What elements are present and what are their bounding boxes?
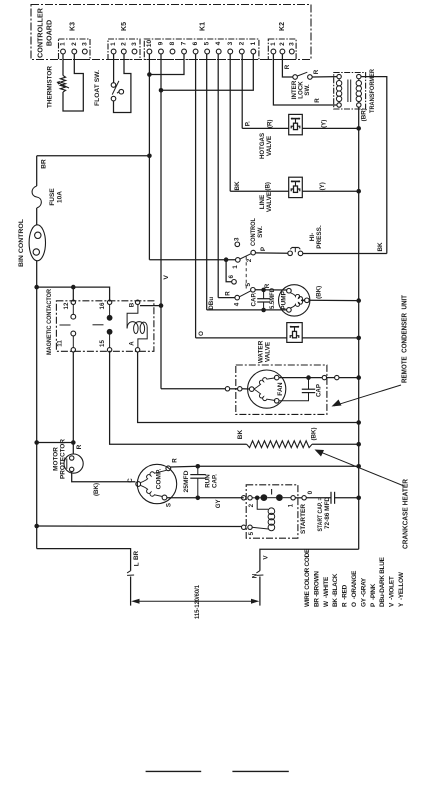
svg-text:1: 1 — [110, 42, 117, 46]
svg-text:MAGNETIC CONTACTOR: MAGNETIC CONTACTOR — [46, 289, 53, 355]
connector K1 pin 2 — [238, 41, 245, 54]
svg-text:16: 16 — [99, 302, 106, 309]
transformer secondary winding — [356, 79, 361, 103]
wire K1 pin7 jog to pin10 line — [149, 54, 184, 75]
connector K3 pin 3 — [81, 42, 88, 54]
svg-text:10: 10 — [146, 40, 153, 48]
fan motor FAN — [248, 370, 286, 408]
svg-text:5: 5 — [204, 41, 211, 45]
svg-text:FUSE: FUSE — [49, 188, 56, 206]
junction pin10/BR fuse line — [147, 154, 152, 159]
wire pin5 to pump bottom (DBu) — [207, 309, 287, 311]
label FUSE 10A — [49, 188, 64, 206]
svg-text:3: 3 — [288, 42, 295, 46]
label BK linevalve — [234, 181, 241, 191]
svg-text:5: 5 — [245, 283, 252, 287]
svg-text:0: 0 — [307, 490, 314, 494]
svg-text:4: 4 — [233, 302, 240, 306]
wire rail bin to starter 5 — [37, 525, 242, 528]
dimension line 115-120/60/1 — [131, 599, 259, 604]
water valve — [287, 323, 302, 343]
svg-text:STARTER: STARTER — [300, 504, 307, 534]
contactor coil terminal A — [128, 341, 140, 352]
label (BK) pump — [316, 286, 323, 299]
run capacitor 25MFD — [190, 466, 206, 498]
svg-text:(R): (R) — [267, 120, 274, 129]
label CONTROL SW. — [250, 218, 264, 246]
wire K3 pin1 to thermistor — [62, 54, 64, 76]
wire N lead — [260, 549, 359, 570]
junction hotgas on bus — [356, 126, 361, 131]
svg-text:HOTGAS: HOTGAS — [259, 132, 266, 159]
label BIN CONTROL — [18, 219, 25, 267]
wire L lead lower — [130, 577, 132, 606]
svg-text:R: R — [264, 283, 271, 288]
svg-text:K3: K3 — [69, 22, 76, 31]
svg-text:R: R — [284, 64, 291, 69]
label 115-120/60/1 — [194, 585, 201, 619]
label THERMISTOR — [47, 66, 54, 108]
wire water valve to bus — [302, 337, 359, 339]
label R pump — [264, 283, 271, 288]
svg-text:K2: K2 — [279, 22, 286, 31]
connector K1 pin 7 — [181, 41, 188, 54]
wire K1 pin1 jog to pin9 line — [161, 54, 253, 90]
label R interlock — [313, 69, 320, 74]
junction bin/contactor branch — [34, 285, 39, 290]
label 1 starter — [288, 503, 295, 507]
svg-text:SW.: SW. — [304, 84, 311, 96]
svg-text:(BR): (BR) — [360, 108, 367, 121]
crankcase heater resistor — [247, 441, 313, 448]
control switch contact 5 — [245, 283, 255, 293]
wire L lead — [37, 549, 131, 571]
arrow to crankcase heater — [315, 450, 405, 487]
wire hi-press to BK line — [303, 253, 387, 255]
connector K1 pin 3 — [227, 41, 234, 54]
wire terminal 15 to crankcase heater — [110, 352, 247, 444]
svg-text:PUMP: PUMP — [281, 290, 288, 309]
label N — [251, 573, 258, 578]
fan capacitor — [279, 378, 315, 401]
label START CAP. — [317, 497, 324, 531]
svg-text:5.5MFD: 5.5MFD — [269, 288, 276, 309]
svg-text:CAP.: CAP. — [212, 474, 219, 488]
svg-text:K5: K5 — [121, 22, 128, 31]
wire K2 pin2 to interlock — [282, 54, 292, 77]
svg-text:DBu-DARK BLUE: DBu-DARK BLUE — [379, 556, 386, 607]
wire color code legend — [304, 548, 405, 607]
junction pump cap bottom — [261, 308, 266, 313]
svg-text:START CAP. =: START CAP. = — [317, 497, 324, 531]
label (BR) — [360, 108, 367, 121]
label BR — [41, 159, 48, 169]
starter terminal 1 outer circle — [295, 496, 306, 500]
svg-text:VALVE: VALVE — [265, 341, 272, 362]
wire heater to bus — [312, 443, 359, 445]
wire pin6 to water valve (O) — [196, 337, 287, 339]
junction start cap on bus — [356, 496, 361, 501]
pump motor PUMP — [279, 285, 310, 316]
svg-text:BIN CONTROL: BIN CONTROL — [18, 219, 25, 267]
wire K1 pin6 down (O net) — [195, 54, 197, 338]
wire K5 pin1 to float switch — [113, 54, 115, 83]
label R comp — [172, 458, 179, 463]
starter box — [246, 485, 298, 538]
svg-text:3: 3 — [81, 42, 88, 46]
svg-text:BK: BK — [237, 430, 244, 440]
transformer core — [348, 80, 351, 103]
svg-text:(B): (B) — [264, 182, 271, 191]
label LINE VALVE — [259, 191, 273, 212]
wire thermistor loop to K3 pin2 — [63, 54, 83, 111]
wire pump to bus (BK) — [309, 299, 359, 301]
junction bin/protector branch — [34, 440, 39, 445]
label PUMP — [281, 290, 288, 309]
junction heater on bus — [356, 442, 361, 447]
svg-text:BR: BR — [41, 159, 48, 169]
connector K3 box — [59, 39, 91, 60]
wire pin3 to line valve (BK) — [230, 190, 289, 192]
svg-text:S: S — [166, 503, 173, 507]
transformer terminals — [337, 74, 361, 107]
wire N lead lower — [259, 577, 261, 606]
svg-text:VALVE: VALVE — [266, 191, 273, 212]
label R k2pin2 — [284, 64, 291, 69]
control switch contact 3 — [234, 237, 241, 247]
svg-text:VALVE: VALVE — [266, 135, 273, 156]
svg-text:1: 1 — [60, 42, 67, 46]
wire connector to fan terminal — [242, 388, 249, 390]
label K5 — [121, 22, 128, 31]
svg-text:72-86 MFD: 72-86 MFD — [324, 496, 331, 529]
wire K1 pin9 down (V net) — [160, 54, 162, 389]
arrow to remote condenser unit — [332, 385, 402, 407]
svg-text:6: 6 — [228, 274, 235, 278]
svg-text:COMP.: COMP. — [156, 468, 163, 489]
svg-text:9: 9 — [157, 41, 164, 45]
svg-text:DBu: DBu — [208, 297, 215, 310]
svg-text:THERMISTOR: THERMISTOR — [47, 66, 54, 108]
connector K1 pin 4 — [215, 41, 222, 54]
fan connector circles right — [322, 375, 339, 379]
label REMOTE CONDENSER UNIT — [402, 294, 409, 383]
wire contact5 to pump — [255, 289, 286, 291]
contactor coil — [127, 305, 147, 348]
contactor terminal 15 — [99, 340, 112, 352]
control switch contact 4 — [233, 295, 240, 306]
connector K1 pin 9 — [157, 41, 164, 54]
svg-text:CONTROLLER: CONTROLLER — [36, 7, 45, 58]
svg-text:RUN: RUN — [205, 474, 212, 488]
label (Y) hotgas — [320, 120, 327, 128]
wire K2 pin1 to transformer — [273, 54, 336, 105]
starter contact — [252, 489, 291, 501]
label P. — [244, 121, 251, 126]
svg-text:WATER: WATER — [258, 340, 265, 363]
junction bin/starter rail — [34, 524, 39, 529]
svg-text:HI-: HI- — [309, 233, 316, 242]
svg-text:3: 3 — [234, 237, 241, 241]
wire fuse to bin control — [36, 208, 38, 225]
label INTER LOCK SW. — [291, 80, 311, 99]
svg-text:CAP: CAP — [315, 384, 322, 397]
junction water valve on bus — [356, 336, 361, 341]
svg-text:1: 1 — [288, 503, 295, 507]
label TRANSFORMER — [369, 69, 376, 113]
contactor terminal 16 — [99, 300, 112, 309]
svg-text:MOTOR: MOTOR — [53, 447, 60, 471]
control switch coupling dashed — [245, 257, 247, 289]
connector K1 pin 1 — [250, 41, 257, 54]
label BK — [237, 430, 244, 440]
connector K1 pin 10 — [146, 40, 153, 54]
junction pin9/pin1 (V net) — [159, 88, 164, 93]
wire K1 pin2 down (P net) — [241, 54, 243, 128]
svg-text:11: 11 — [57, 340, 64, 347]
label 5.5MFD — [269, 288, 276, 309]
junction starter coil tap — [255, 496, 260, 501]
wire BR from fuse line to pin10 — [37, 155, 150, 157]
svg-text:C: C — [127, 478, 134, 483]
connector K1 pin 6 — [192, 41, 199, 54]
connector K1 pin 8 — [169, 41, 176, 54]
label K2 — [279, 22, 286, 31]
starter coil — [252, 498, 275, 531]
svg-text:15: 15 — [99, 340, 106, 347]
connector K1 box — [144, 39, 259, 60]
label R xfmr — [314, 98, 321, 103]
connector K5 pin 2 — [120, 42, 127, 54]
label 72-86 MFD — [324, 496, 331, 529]
svg-text:R: R — [314, 98, 321, 103]
junction R wire on bus — [356, 464, 361, 469]
label DBu — [208, 297, 215, 310]
label (B) linevalve — [264, 182, 271, 191]
svg-text:R: R — [225, 291, 232, 296]
svg-text:N: N — [251, 573, 258, 578]
svg-text:V: V — [163, 275, 170, 280]
fuse F1 10A — [32, 186, 41, 208]
svg-text:8: 8 — [169, 41, 176, 45]
svg-text:1: 1 — [250, 41, 257, 45]
svg-text:B: B — [128, 302, 135, 307]
svg-text:V -VIOLET: V -VIOLET — [389, 576, 396, 607]
svg-text:7: 7 — [181, 41, 188, 45]
svg-text:2: 2 — [246, 258, 253, 262]
float switch FS — [111, 81, 123, 101]
junction pump cap top — [261, 288, 266, 293]
svg-text:BR -BROWN: BR -BROWN — [313, 571, 320, 607]
svg-text:6: 6 — [192, 41, 199, 45]
compressor motor COMP — [136, 464, 177, 503]
wire comp R to bus — [171, 465, 359, 468]
svg-text:O: O — [198, 331, 205, 336]
svg-text:2: 2 — [279, 42, 286, 46]
starter connector circles — [242, 496, 253, 500]
label L — [134, 562, 141, 566]
transformer primary winding — [336, 79, 341, 103]
wire K1 pin3 down (BK net) — [229, 54, 231, 191]
label BK hipress — [377, 242, 384, 252]
wire bin control down — [36, 261, 38, 549]
starter terminal 1 — [291, 496, 295, 500]
junction protector/bin branch — [71, 440, 76, 445]
label MAGNETIC CONTACTOR — [46, 289, 53, 355]
label CAP. pump — [251, 292, 258, 306]
svg-text:O -ORANGE: O -ORANGE — [351, 570, 358, 607]
wire coil A down and right to bus — [138, 352, 359, 423]
svg-text:PROTECTOR: PROTECTOR — [60, 439, 67, 479]
pump capacitor 5.5MFD — [257, 290, 270, 310]
label 25MFD — [183, 470, 190, 493]
svg-text:TRANSFORMER: TRANSFORMER — [369, 69, 376, 113]
svg-text:WIRE COLOR CODE: WIRE COLOR CODE — [304, 548, 311, 607]
junction run cap top — [196, 464, 201, 469]
svg-text:BK: BK — [377, 242, 384, 252]
control switch contact 6 — [228, 274, 236, 284]
fan unit box — [236, 365, 327, 414]
bus wire right (transformer BR to N) — [358, 107, 360, 549]
contactor contact 16-15 — [93, 305, 113, 348]
svg-text:12: 12 — [63, 302, 70, 309]
transformer T1 box — [334, 73, 366, 110]
wire K1 pin5 down (DBu net) — [206, 54, 208, 310]
svg-text:25MFD: 25MFD — [183, 470, 190, 493]
svg-text:SW.: SW. — [257, 226, 264, 238]
svg-text:1: 1 — [270, 42, 277, 46]
label C comp — [127, 478, 134, 483]
junction pin10/pin7 — [147, 72, 152, 77]
svg-text:L: L — [134, 562, 141, 566]
svg-text:2: 2 — [71, 42, 78, 46]
control switch blade 5-4 — [239, 291, 250, 297]
label FAN — [277, 382, 284, 395]
label CAP fan — [315, 384, 322, 397]
label COMP. — [156, 468, 163, 489]
svg-text:3: 3 — [227, 41, 234, 45]
contactor terminal 11 — [57, 340, 76, 352]
svg-text:P.: P. — [244, 121, 251, 126]
wire feed to contact 6 — [226, 260, 232, 282]
junction pump on bus — [356, 298, 361, 303]
svg-text:5: 5 — [248, 531, 255, 535]
label S comp — [166, 503, 173, 507]
wire line valve to bus (Y) — [302, 190, 358, 192]
svg-text:BK -BLACK: BK -BLACK — [332, 573, 339, 607]
label 2 starter — [248, 503, 255, 507]
label R — [76, 444, 83, 449]
line valve — [289, 177, 303, 197]
fan connector circles left — [225, 387, 242, 391]
svg-text:R -RED: R -RED — [342, 584, 349, 607]
label P — [260, 247, 267, 251]
contactor coil terminal B — [128, 300, 140, 307]
svg-text:GY -GRAY: GY -GRAY — [360, 577, 367, 607]
hot gas valve — [289, 114, 303, 134]
svg-text:Y -YELLOW: Y -YELLOW — [398, 571, 405, 607]
junction coil A line on bus — [356, 420, 361, 425]
label HI-PRESS. — [309, 225, 323, 249]
svg-text:R: R — [172, 458, 179, 463]
wire pin9 V-line to fan — [161, 388, 225, 390]
wire K1 pin10 down (L net) — [148, 54, 150, 260]
label (Y) linevalve — [319, 182, 326, 190]
label HOTGAS VALVE — [259, 132, 273, 159]
svg-text:K1: K1 — [199, 22, 206, 31]
label STARTER — [300, 504, 307, 534]
svg-text:REMOTE CONDENSER UNIT: REMOTE CONDENSER UNIT — [402, 294, 409, 383]
wire starter to start cap — [306, 497, 331, 499]
label MOTOR PROTECTOR — [53, 439, 67, 479]
svg-text:FAN: FAN — [277, 382, 284, 395]
label V — [163, 275, 170, 280]
wire fan to bus — [339, 377, 359, 379]
svg-text:(BK): (BK) — [316, 286, 323, 299]
label BR lead — [133, 551, 140, 561]
wire pin10 line to control switch — [149, 259, 235, 261]
label O — [198, 331, 205, 336]
connector K2 pin 2 — [279, 42, 286, 54]
label CRANKCASE HEATER — [403, 479, 410, 549]
label GY — [215, 498, 222, 508]
wire pin2 to hot gas valve (P) — [242, 127, 289, 129]
svg-text:CONTROL: CONTROL — [250, 218, 257, 246]
svg-text:R: R — [313, 69, 320, 74]
label (BK) — [93, 483, 100, 496]
svg-text:2: 2 — [248, 503, 255, 507]
wire fuse top — [36, 156, 38, 186]
junction control switch feed — [224, 257, 229, 262]
controller board outline — [31, 5, 311, 60]
connector K1 pin 5 — [204, 41, 211, 54]
svg-text:FLOAT SW.: FLOAT SW. — [94, 70, 101, 106]
connector K5 pin 1 — [110, 42, 117, 54]
wire branch to terminal 12 — [72, 287, 74, 301]
label FLOAT SW. — [94, 70, 101, 106]
connector K5 pin 3 — [131, 42, 138, 54]
footer line 1 — [146, 770, 202, 772]
label K3 — [69, 22, 76, 31]
label CONTROLLER BOARD — [36, 7, 54, 58]
label (BK) heater — [311, 427, 318, 440]
label R ctrl — [225, 291, 232, 296]
junction linevalve on bus — [356, 189, 361, 194]
label WATER VALVE — [258, 340, 272, 363]
svg-text:LINE: LINE — [259, 194, 266, 209]
svg-text:W -WHITE: W -WHITE — [323, 576, 330, 607]
wire interlock to transformer — [312, 76, 337, 78]
connector K3 pin 2 — [71, 42, 78, 54]
wire bin to contactor terminals 12,16 — [37, 287, 110, 301]
svg-text:4: 4 — [215, 41, 222, 45]
connector K5 box — [108, 39, 140, 60]
svg-text:CAP.: CAP. — [251, 292, 258, 306]
control switch blade 1-2 — [240, 254, 251, 259]
contactor contact 12-11 — [60, 305, 76, 348]
control switch contact 1 — [232, 258, 240, 269]
svg-text:3: 3 — [131, 42, 138, 46]
starter terminal 5 circles — [242, 525, 253, 529]
svg-text:P: P — [260, 247, 267, 251]
svg-text:2: 2 — [238, 41, 245, 45]
wire fan top terminal to bus — [279, 377, 322, 379]
connector K2 pin 3 — [288, 42, 295, 54]
connector K2 pin 1 — [270, 42, 277, 54]
junction run cap bottom — [196, 496, 201, 501]
svg-text:1: 1 — [232, 265, 239, 269]
svg-text:BK: BK — [234, 181, 241, 191]
